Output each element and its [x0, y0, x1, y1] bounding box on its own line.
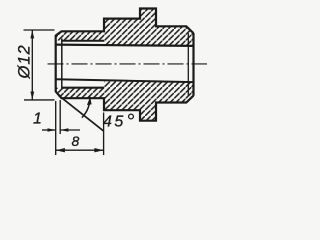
left chamfer edge line: [61, 39, 63, 89]
right end face: [192, 33, 194, 96]
dim Ø12 extension line bottom: [24, 99, 55, 101]
45 deg leader line (chamfer extended): [59, 95, 104, 131]
svg-text:1: 1: [33, 111, 42, 128]
bore line top: [56, 45, 194, 46]
dim 8 arrow left: [56, 148, 65, 152]
dim Ø12 arrow up: [30, 30, 34, 38]
45 deg arc arrowhead: [87, 97, 92, 105]
dim 1 extension line right: [59, 100, 61, 134]
left end face: [55, 35, 57, 92]
svg-text:45: 45: [103, 114, 126, 131]
thread root line top: [62, 40, 105, 42]
degree circle of 45deg label: [129, 114, 134, 119]
right chamfer edge line: [187, 33, 189, 95]
dim 1 extension line left (shared with dim 8): [55, 101, 57, 155]
dim 8 dimension line: [56, 149, 104, 151]
dim 1 left arrow: [42, 129, 56, 131]
dim Ø12 dimension line: [31, 30, 33, 100]
outer profile upper: [56, 9, 194, 36]
centerline: [48, 63, 208, 65]
outer profile lower: [56, 92, 194, 121]
dim Ø12 extension line top: [24, 29, 55, 31]
dim 1 right arrow: [60, 129, 80, 131]
fitting body upper wall section (hatched): [56, 9, 194, 46]
dim Ø12 arrow down: [30, 92, 34, 100]
fitting body lower wall section (hatched): [56, 80, 194, 120]
thread root line bottom: [62, 87, 105, 89]
svg-text:Ø12: Ø12: [16, 44, 34, 79]
dim 8 extension line right: [103, 113, 105, 156]
bore line bottom: [56, 79, 194, 82]
dim 8 arrow right: [94, 148, 103, 152]
svg-text:8: 8: [72, 133, 80, 149]
45 deg dimension arc: [82, 97, 90, 118]
